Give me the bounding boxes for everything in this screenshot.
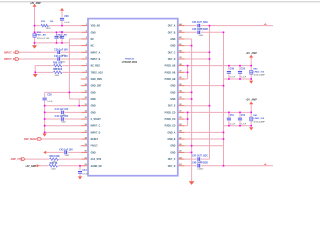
- junction J36: [187, 118, 189, 120]
- svg-text:C46 OUT_SDB: C46 OUT_SDB: [192, 28, 208, 31]
- pin 32 stub: [178, 105, 185, 107]
- pin 33 stub: [178, 98, 185, 100]
- svg-text:C33 1uF 16V: C33 1uF 16V: [54, 56, 68, 58]
- capacitor C44: [78, 170, 82, 174]
- wire rowR21 out: [184, 165, 273, 167]
- svg-text:GND: GND: [170, 86, 175, 88]
- svg-text:R36 1K8: R36 1K8: [53, 62, 63, 64]
- pin 25 stub: [178, 151, 185, 153]
- capacitor C45: [197, 24, 201, 28]
- value C52: [241, 123, 247, 125]
- pin 22 stub: [81, 165, 88, 167]
- svg-text:C36: C36: [64, 15, 69, 18]
- pin 28 stub: [178, 131, 185, 133]
- svg-text:0.1uF: 0.1uF: [230, 77, 236, 79]
- pin 44 stub: [178, 25, 185, 27]
- pin 10 stub: [81, 85, 88, 87]
- pin 19 stub: [81, 145, 88, 147]
- pin 36 stub: [178, 78, 185, 80]
- junction J33: [191, 98, 193, 100]
- label C47: [192, 155, 208, 158]
- value C38: [47, 101, 53, 103]
- value C47: [199, 162, 204, 164]
- label C42: [55, 115, 69, 118]
- svg-text:GND: GND: [170, 146, 175, 148]
- svg-text:LPAD_JB1: LPAD_JB1: [35, 34, 47, 37]
- junction J38: [239, 112, 241, 114]
- wire row18 stub: [80, 145, 83, 147]
- wire row TREG: [35, 71, 81, 73]
- pin 14 stub: [81, 111, 88, 113]
- svg-text:PVDD_CD: PVDD_CD: [165, 119, 176, 121]
- svg-text:C43 1uF 16V: C43 1uF 16V: [59, 148, 73, 151]
- U1 refdes text: [125, 57, 135, 60]
- junction J25: [228, 65, 230, 67]
- pin 31 stub: [178, 111, 185, 113]
- junction J5: [61, 31, 63, 33]
- wire-end arrow row19: [43, 151, 46, 154]
- capacitor C38: [42, 97, 46, 101]
- wire rowR20 out: [184, 158, 209, 160]
- junction J6: [56, 42, 58, 44]
- value R39: [51, 169, 56, 171]
- capacitor C51: [227, 117, 231, 121]
- pin 39 stub: [178, 58, 185, 60]
- svg-text:PVDD_AB: PVDD_AB: [165, 71, 176, 74]
- power flag +3V_AMP lower right: [245, 99, 257, 105]
- label R38: [49, 156, 60, 158]
- pin 9 stub: [81, 78, 88, 80]
- pin 41 stub: [178, 45, 185, 47]
- net flag AMP_VTN: [11, 158, 25, 162]
- power flag +3V_AMP top: [33, 4, 37, 7]
- ground left cluster: [32, 43, 37, 49]
- svg-text:GND: GND: [170, 46, 175, 48]
- value C41: [61, 115, 66, 117]
- U1 left pin numbers: [84, 24, 87, 166]
- wire row10: [45, 91, 82, 93]
- junction J29: [239, 78, 241, 80]
- U1 right pin numbers: [179, 23, 182, 166]
- svg-text:OUT_C: OUT_C: [168, 159, 176, 161]
- svg-text:R40: R40: [253, 67, 258, 70]
- pin 16 stub: [81, 125, 88, 127]
- svg-text:GND: GND: [170, 92, 175, 94]
- junction J7: [61, 42, 63, 44]
- svg-text:GND_B: GND_B: [168, 139, 176, 141]
- capacitor C43: [64, 150, 68, 154]
- wire rowR5: [184, 58, 209, 60]
- junction J20: [191, 45, 193, 47]
- svg-text:C52: C52: [241, 115, 246, 117]
- pin 38 stub: [178, 65, 185, 67]
- wire row8 stub: [80, 78, 83, 80]
- svg-text:GND: GND: [91, 99, 96, 101]
- wire cap col upper 2: [239, 66, 241, 79]
- resistor R37: [53, 70, 63, 74]
- wire rowR12: [184, 105, 209, 107]
- wire resistor gnd vertical: [34, 66, 36, 75]
- svg-text:VDD_AB: VDD_AB: [91, 25, 101, 28]
- junction J22: [209, 58, 211, 60]
- svg-text:0402: 0402: [51, 169, 56, 171]
- wire cap col lower 1: [228, 112, 230, 125]
- power flag +3V_AMP upper right: [245, 52, 257, 58]
- wire row15: [45, 125, 82, 127]
- label C36: [64, 15, 69, 18]
- svg-text:INPUT_B: INPUT_B: [4, 58, 15, 61]
- wire row16: [45, 131, 82, 133]
- wire pvdd tie lower: [187, 112, 189, 125]
- svg-text:+3V_AMP: +3V_AMP: [245, 52, 257, 55]
- value R35: [46, 28, 51, 30]
- svg-text:0402: 0402: [199, 35, 204, 37]
- junction J14: [44, 118, 46, 120]
- svg-text:TPA3128: TPA3128: [125, 57, 135, 60]
- pin 5 stub: [81, 51, 88, 53]
- svg-text:C_START: C_START: [91, 118, 102, 121]
- svg-text:0402: 0402: [61, 121, 66, 123]
- svg-text:AMP_VTN: AMP_VTN: [11, 158, 22, 161]
- wire VDD row: [35, 25, 82, 27]
- junction J1: [34, 25, 36, 27]
- pin 30 stub: [178, 118, 185, 120]
- svg-text:PVDD_CD: PVDD_CD: [165, 112, 176, 114]
- wire rowR7: [184, 71, 187, 73]
- pin 27 stub: [178, 138, 185, 140]
- svg-text:R38 100K: R38 100K: [49, 156, 60, 158]
- junction J12: [44, 105, 46, 107]
- wire INPUT_A row: [19, 51, 81, 53]
- label C43: [59, 148, 73, 151]
- junction J13: [44, 112, 46, 114]
- svg-text:AMP_RESET: AMP_RESET: [24, 138, 38, 141]
- junction J31: [223, 85, 225, 87]
- wire rowR6 pvdd rail: [184, 65, 251, 67]
- value C43: [65, 155, 70, 157]
- ground left column: [43, 134, 47, 137]
- wire left gnd column: [44, 92, 46, 133]
- svg-text:+3V_AMP: +3V_AMP: [245, 99, 257, 102]
- junction J27: [250, 65, 252, 67]
- svg-text:0.1uF: 0.1uF: [47, 101, 53, 103]
- resistor R38: [49, 157, 59, 161]
- svg-text:C51: C51: [230, 115, 235, 117]
- resistor R36: [53, 64, 63, 68]
- wire rowR19: [184, 151, 191, 153]
- capacitor C33: [57, 57, 61, 61]
- label R41 part: [253, 117, 264, 120]
- pin 23 stub: [178, 165, 185, 167]
- svg-text:INPUT_B: INPUT_B: [91, 59, 101, 61]
- svg-text:INPUT_A: INPUT_A: [4, 51, 15, 54]
- svg-text:C48 OUT_SDD: C48 OUT_SDD: [192, 161, 208, 164]
- value C49: [230, 77, 236, 79]
- resistor R41 LPAD: [250, 117, 253, 121]
- junction J43: [223, 132, 225, 134]
- wire lower cluster bottom rail: [224, 125, 252, 127]
- svg-text:C38: C38: [47, 94, 52, 97]
- capacitor C50: [238, 70, 242, 74]
- junction J9: [34, 72, 36, 74]
- capacitor C37: [60, 35, 64, 39]
- pin 13 stub: [81, 105, 88, 107]
- value C46: [199, 35, 204, 37]
- value R40: [253, 74, 265, 77]
- value C50: [241, 77, 247, 79]
- junction J23: [187, 65, 189, 67]
- label C50: [241, 69, 246, 71]
- svg-text:3216-6.3.16F: 3216-6.3.16F: [37, 38, 50, 40]
- svg-text:INPUT_C: INPUT_C: [91, 126, 101, 128]
- svg-text:3216-6 AMP: 3216-6 AMP: [253, 120, 265, 123]
- junction J41: [239, 125, 241, 127]
- junction J28: [228, 78, 230, 80]
- svg-text:PVDD_AB: PVDD_AB: [165, 65, 176, 68]
- wire cap branch row21: [79, 166, 81, 177]
- wire GND rail row2: [35, 31, 82, 33]
- label R37: [53, 69, 63, 71]
- junction J47: [223, 165, 225, 167]
- pin 2 stub: [81, 31, 88, 33]
- wire rowR13 pvdd rail: [184, 111, 251, 113]
- pin 40 stub: [178, 51, 185, 53]
- label R33: [37, 32, 42, 34]
- junction J4: [56, 31, 58, 33]
- label C46: [192, 28, 208, 31]
- wire vertical to row10: [68, 39, 70, 99]
- junction J3: [34, 42, 36, 44]
- svg-text:GND_CNT: GND_CNT: [91, 86, 103, 88]
- junction J35: [187, 112, 189, 114]
- svg-text:CLK_SYN: CLK_SYN: [91, 159, 102, 161]
- value C33: [61, 62, 66, 64]
- capacitor C34: [57, 50, 61, 54]
- junction J30: [250, 78, 252, 80]
- svg-text:C47 OUT_SDC: C47 OUT_SDC: [192, 155, 208, 158]
- label C33: [54, 56, 68, 58]
- pin 6 stub: [81, 58, 88, 60]
- svg-text:GND: GND: [91, 152, 96, 154]
- svg-text:OUT_B: OUT_B: [168, 32, 176, 34]
- pin 43 stub: [178, 31, 185, 33]
- wire rowR8: [184, 78, 187, 80]
- svg-text:C45 OUT_SDA: C45 OUT_SDA: [192, 21, 208, 24]
- wire pvdd tie upper: [187, 66, 189, 79]
- wire INPUT_B row: [19, 58, 81, 60]
- resistor R35: [41, 24, 50, 28]
- wire rowR9: [184, 85, 223, 87]
- svg-text:+3V_AMP: +3V_AMP: [25, 165, 36, 168]
- label R39: [50, 163, 58, 165]
- pin 7 stub: [81, 65, 88, 67]
- svg-text:GND: GND: [91, 106, 96, 108]
- U1 left pin names: [91, 25, 104, 168]
- power flag down GND bus: [189, 181, 195, 185]
- svg-text:OUT_A: OUT_A: [168, 25, 176, 28]
- wire rowR10: [184, 91, 191, 93]
- wire row11: [69, 98, 81, 100]
- wire lpad col lower: [250, 104, 252, 125]
- label C41: [55, 108, 69, 111]
- junction J16: [44, 132, 46, 134]
- junction J46: [191, 152, 193, 154]
- pin 12 stub: [81, 98, 88, 100]
- resistor R40 LPAD: [250, 70, 253, 74]
- pin 1 stub: [81, 25, 88, 27]
- svg-text:3216-6 AMP: 3216-6 AMP: [253, 74, 265, 77]
- op-amp U1 body: [88, 19, 178, 176]
- pin 18 stub: [81, 138, 88, 140]
- wire row13: [45, 111, 82, 113]
- svg-text:NC: NC: [91, 39, 95, 41]
- wire row19: [46, 151, 81, 153]
- junction J15: [44, 125, 46, 127]
- label C38: [47, 94, 52, 97]
- svg-text:NC_REG: NC_REG: [91, 66, 101, 68]
- svg-text:R35: R35: [41, 21, 46, 23]
- wire row9 stub: [80, 85, 83, 87]
- wire bus A: [209, 26, 211, 159]
- label R33 part: [35, 34, 47, 37]
- capacitor C36: [60, 17, 64, 21]
- pin 35 stub: [178, 85, 185, 87]
- pin 21 stub: [81, 158, 88, 160]
- wire rowR2: [184, 38, 191, 40]
- svg-text:R41: R41: [253, 114, 258, 117]
- capacitor C48: [197, 164, 201, 168]
- capacitor C35: [54, 35, 58, 39]
- junction J26: [239, 65, 241, 67]
- value C51: [230, 123, 236, 125]
- label R35: [41, 21, 54, 23]
- wire AMP_VTN row: [25, 158, 81, 160]
- value C36: [64, 22, 70, 24]
- value C44: [82, 173, 88, 175]
- svg-text:0402: 0402: [46, 28, 51, 30]
- pin 17 stub: [81, 131, 88, 133]
- svg-text:0.1uF: 0.1uF: [241, 123, 247, 125]
- svg-text:PVDD_AB: PVDD_AB: [165, 78, 176, 81]
- wire +3V row21: [39, 165, 81, 167]
- junction J11: [78, 105, 80, 107]
- svg-text:GND: GND: [91, 92, 96, 94]
- svg-text:C50: C50: [241, 69, 246, 71]
- wire rowL2: [69, 38, 81, 40]
- svg-text:C42 1uF 16V: C42 1uF 16V: [55, 115, 69, 118]
- wire bus GND: [191, 39, 193, 181]
- junction J2: [34, 31, 36, 33]
- wire rowR16: [184, 131, 223, 133]
- wire-end marker top: [264, 23, 268, 25]
- wire lpad col upper: [250, 58, 252, 79]
- capacitor C42: [60, 117, 64, 121]
- svg-text:GND: GND: [170, 152, 175, 154]
- pin 24 stub: [178, 158, 185, 160]
- pin 4 stub: [81, 45, 88, 47]
- pin 37 stub: [178, 71, 185, 73]
- wire AMP_RESET row: [42, 138, 82, 140]
- pin 29 stub: [178, 125, 185, 127]
- svg-text:0.1uF: 0.1uF: [57, 37, 63, 39]
- wire cap column C37: [61, 32, 63, 43]
- wire rowR15: [184, 125, 187, 127]
- junction J24: [187, 72, 189, 74]
- junction J37: [228, 112, 230, 114]
- label C44: [82, 169, 87, 172]
- label C37: [56, 31, 68, 39]
- label C45: [192, 21, 208, 24]
- svg-text:0.1uF: 0.1uF: [64, 22, 70, 24]
- power flag +3V_AMP row21: [25, 164, 39, 168]
- label R41: [253, 114, 258, 117]
- svg-text:PVDD_CD: PVDD_CD: [165, 126, 176, 128]
- svg-text:GND: GND: [170, 99, 175, 101]
- junction J39: [250, 112, 252, 114]
- junction J8: [61, 25, 63, 27]
- wire rowR3: [184, 45, 191, 47]
- wire row NC_REG: [35, 65, 81, 67]
- svg-text:TREG_ADJ: TREG_ADJ: [91, 71, 104, 74]
- wire rowR18: [184, 145, 223, 147]
- label R40 part: [253, 70, 264, 73]
- wire bus B: [223, 32, 225, 165]
- junction J10: [69, 92, 71, 94]
- U1 right pin names: [165, 25, 176, 168]
- sheet top border: [0, 2, 320, 3]
- junction J34: [209, 105, 211, 107]
- value R37: [55, 75, 60, 77]
- svg-text:GND: GND: [170, 39, 175, 41]
- junction J44: [223, 138, 225, 140]
- svg-text:OUT_D: OUT_D: [168, 166, 176, 168]
- value C42: [61, 121, 66, 123]
- svg-text:GND: GND: [91, 112, 96, 114]
- svg-text:C34 1uF 16V: C34 1uF 16V: [54, 48, 68, 51]
- svg-text:FAULT: FAULT: [91, 145, 99, 148]
- svg-text:R37 1K8: R37 1K8: [53, 69, 63, 71]
- svg-text:NC: NC: [91, 46, 95, 48]
- value R41: [253, 120, 265, 123]
- pin 42 stub: [178, 38, 185, 40]
- resistor R33 LPAD: [33, 34, 36, 38]
- pin 20 stub: [81, 151, 88, 153]
- svg-text:C49: C49: [230, 68, 235, 71]
- U1 part text: [122, 62, 138, 64]
- pin 26 stub: [178, 145, 185, 147]
- net label +3V_AMP top: [30, 2, 41, 5]
- junction J17: [79, 165, 81, 167]
- wire-end marker bottom: [264, 163, 268, 165]
- ground row21 branch: [78, 176, 82, 179]
- svg-text:GND: GND: [91, 32, 96, 34]
- svg-text:0.1uF: 0.1uF: [82, 173, 88, 175]
- svg-text:LPAD_100: LPAD_100: [253, 117, 264, 120]
- wire rowL3: [69, 45, 81, 47]
- net flag AMP_RESET: [24, 138, 42, 142]
- svg-text:100: 100: [50, 21, 54, 23]
- pin 8 stub: [81, 71, 88, 73]
- capacitor C49: [227, 70, 231, 74]
- wire rowR0 out: [184, 25, 273, 27]
- svg-text:OUT_D: OUT_D: [168, 59, 176, 61]
- svg-text:R39 1K: R39 1K: [50, 163, 58, 165]
- junction J32: [191, 92, 193, 94]
- wire cap column C35: [56, 32, 58, 43]
- wire rowR11: [184, 98, 191, 100]
- svg-text:C44: C44: [82, 169, 87, 172]
- svg-text:INPUT_A: INPUT_A: [91, 51, 101, 54]
